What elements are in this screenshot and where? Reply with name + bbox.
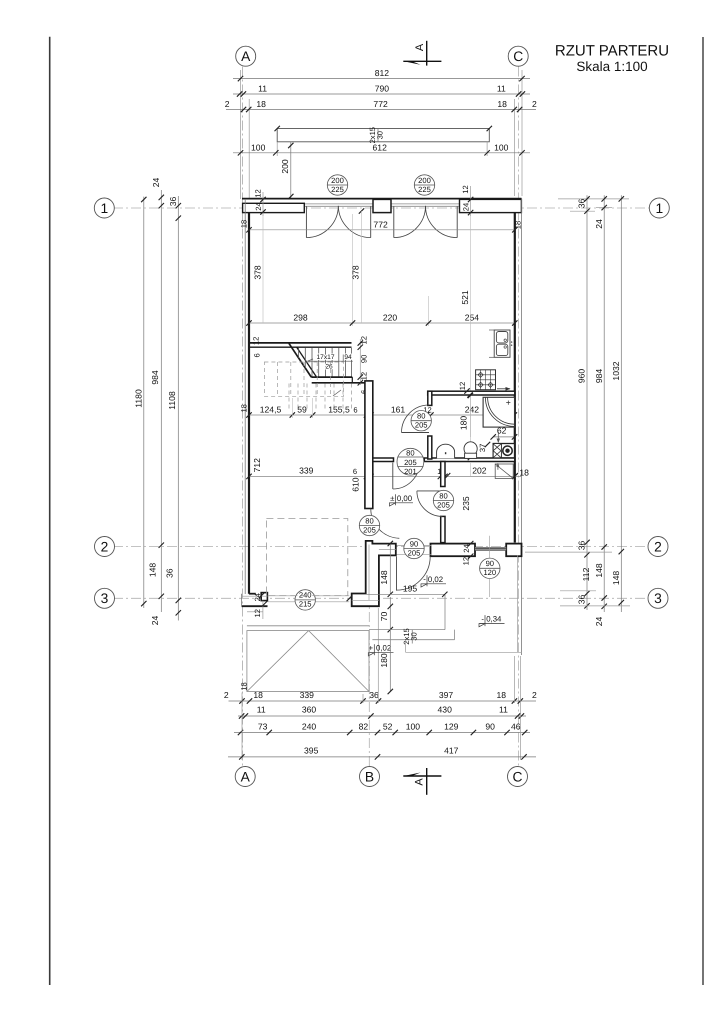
svg-text:12: 12: [253, 189, 262, 197]
thin line 12 offset: [247, 611, 263, 613]
svg-text:24: 24: [462, 203, 471, 211]
extension line left inner 249: [248, 99, 250, 199]
kitchen sink unit: [489, 330, 512, 357]
svg-text:430: 430: [438, 705, 453, 715]
svg-text:90: 90: [486, 559, 494, 568]
label 24 on bedroom pier: [462, 541, 473, 559]
bedroom door 80/205 arc + leaf: [417, 491, 443, 517]
door 201 swing arc: [393, 463, 420, 489]
svg-text:30: 30: [376, 131, 385, 139]
svg-text:24: 24: [594, 219, 604, 229]
svg-text:0,02: 0,02: [428, 575, 443, 584]
svg-text:195: 195: [403, 584, 418, 594]
canopy hip ridge left diagonal: [247, 631, 309, 692]
grid line 1 (horizontal dashed): [113, 207, 650, 209]
door 201 leaf (80/205/201): [392, 463, 394, 489]
svg-text:1: 1: [100, 201, 108, 216]
section mark top: arrow line: [403, 41, 441, 66]
dim row 11 790 11: [233, 84, 530, 97]
canopy top line: [247, 625, 369, 627]
svg-text:215: 215: [299, 600, 312, 609]
svg-text:12: 12: [360, 336, 369, 344]
terrace lines right of steps: [406, 555, 522, 652]
grid bubble 2 right: [648, 537, 668, 557]
stair risers: [299, 348, 352, 377]
bathroom west wall upper segment: [428, 391, 432, 405]
glazing line upper across top wall: [243, 203, 522, 205]
right ext line y207.6: [596, 207, 612, 209]
svg-text:610: 610: [350, 477, 360, 492]
svg-text:148: 148: [148, 563, 158, 578]
hall horizontal wall right segment: [424, 458, 515, 462]
svg-text:1108: 1108: [167, 391, 177, 410]
svg-text:12: 12: [253, 609, 262, 617]
ticks 12 on kitchen wall: [458, 382, 473, 398]
svg-text:36: 36: [165, 568, 175, 578]
level mark -0,02 bedroom: [421, 575, 446, 588]
svg-text:1032: 1032: [611, 361, 621, 380]
canopy hip ridge right diagonal: [309, 631, 369, 692]
terrace door 1 left leaf: [306, 206, 338, 238]
vertical dim 378 left: [252, 216, 263, 323]
svg-text:±: ±: [390, 494, 395, 503]
svg-text:A: A: [414, 43, 426, 51]
svg-text:36: 36: [577, 541, 587, 551]
svg-text:26: 26: [325, 364, 333, 371]
svg-text:80: 80: [406, 448, 414, 457]
toilet: [464, 442, 477, 459]
svg-text:2: 2: [101, 539, 109, 554]
grid bubble 3 right: [648, 588, 668, 608]
svg-text:0,34: 0,34: [486, 615, 502, 624]
svg-text:960: 960: [577, 369, 587, 384]
hall west door 80/205 arc: [371, 509, 400, 539]
hall horizontal wall y458.6-462.6 left segment: [373, 458, 394, 462]
top-middle wall pier: [373, 199, 391, 212]
stair dashed projection rectangle: [264, 362, 343, 396]
bathroom door leaf: [402, 432, 430, 434]
dim 298 220 254 line: [246, 313, 517, 326]
svg-text:298: 298: [293, 313, 308, 323]
svg-text:80: 80: [439, 491, 447, 500]
svg-text:0,00: 0,00: [397, 494, 413, 503]
svg-text:397: 397: [439, 690, 454, 700]
extension line 612 left: [276, 142, 278, 156]
bottom extension verticals: [242, 608, 521, 760]
left chain 1180: [134, 197, 147, 608]
svg-text:17x17: 17x17: [317, 354, 335, 361]
svg-text:11: 11: [257, 705, 266, 715]
svg-text:18: 18: [519, 468, 529, 478]
svg-text:11: 11: [258, 84, 267, 94]
extension line at C outer: [521, 70, 523, 196]
svg-text:12: 12: [252, 337, 261, 345]
level mark ±0,00: [389, 494, 413, 506]
grid line 2 (horizontal dashed): [113, 546, 650, 548]
svg-text:62: 62: [497, 426, 507, 436]
terrace door 240/215 sill lines: [268, 596, 350, 602]
svg-text:220: 220: [383, 313, 398, 323]
bottom chain row2: 11 360 430 11: [238, 705, 526, 719]
svg-text:100: 100: [251, 142, 266, 152]
svg-text:148: 148: [611, 571, 621, 586]
bottom chain row1: 2 18 339 36 397 18 2: [224, 690, 537, 704]
svg-text:812: 812: [375, 68, 390, 78]
svg-text:148: 148: [594, 563, 604, 578]
svg-text:12: 12: [458, 382, 467, 390]
svg-text:12: 12: [461, 557, 470, 565]
svg-text:984: 984: [594, 369, 604, 384]
grid line 3 (horizontal dashed): [113, 597, 650, 599]
bottom chain row3: 73 240 82 52 100 129 90 46: [234, 721, 530, 735]
door label circle 200/225 left: [327, 175, 347, 195]
vertical dim 200 (lintel to wall, left door): [280, 142, 293, 199]
svg-text:6: 6: [353, 467, 357, 476]
svg-text:80: 80: [417, 412, 425, 421]
stair dashed inner verticals below: [289, 384, 352, 411]
svg-text:772: 772: [373, 99, 388, 109]
svg-text:202: 202: [472, 466, 487, 476]
svg-text:378: 378: [350, 265, 360, 280]
svg-text:B: B: [365, 769, 374, 784]
svg-text:155,5: 155,5: [328, 404, 350, 414]
bottom chain row4: 395 417: [228, 745, 536, 759]
bathroom washbasin: [437, 444, 455, 458]
svg-text:80: 80: [365, 516, 373, 525]
svg-text:148: 148: [379, 570, 389, 585]
stair top wall outer line: [249, 342, 352, 344]
door label circle 80/205 bedroom: [433, 490, 453, 510]
svg-text:59: 59: [297, 404, 307, 414]
svg-text:1180: 1180: [134, 389, 144, 408]
small dim 12/24 ticks at right pier: [461, 185, 473, 216]
svg-text:360: 360: [302, 705, 317, 715]
label 2x15/30 rotated on lintel: [368, 127, 385, 143]
dim row 2 18 772 18 2: [225, 99, 537, 112]
svg-text:18: 18: [497, 690, 507, 700]
svg-text:201: 201: [404, 467, 417, 476]
arrow symbol right of stove: [497, 387, 511, 391]
svg-text:205: 205: [437, 500, 450, 509]
grid bubble 2 left: [95, 537, 115, 557]
svg-text:90: 90: [485, 721, 495, 731]
svg-text:1: 1: [655, 201, 663, 216]
svg-text:C: C: [513, 49, 523, 64]
grid bubble 1 left: [94, 198, 114, 218]
extension line 612 right: [486, 142, 488, 156]
svg-text:11: 11: [497, 84, 506, 94]
svg-text:339: 339: [299, 466, 314, 476]
svg-text:984: 984: [150, 370, 160, 385]
svg-text:112: 112: [581, 567, 591, 581]
top-right wall pier: [460, 199, 522, 212]
door label circle 240/215: [295, 590, 315, 610]
label 235 bedroom height: [461, 463, 471, 511]
svg-text:205: 205: [408, 548, 421, 557]
svg-text:36: 36: [577, 199, 587, 209]
section mark bottom: arrow line: [403, 768, 441, 795]
ticks at corner: [259, 593, 352, 607]
svg-text:225: 225: [331, 185, 344, 194]
door label circle 80/205 bathroom: [411, 411, 431, 431]
grid bubble 3 left: [95, 588, 115, 608]
svg-text:24: 24: [151, 178, 161, 188]
dim 148 entrance: [379, 541, 393, 597]
extension line x352.5: [352, 214, 354, 326]
svg-text:12: 12: [360, 372, 369, 380]
door jamb block 240/215 left: [261, 593, 267, 601]
entrance steps: [369, 595, 455, 640]
door label circle 80/205 hall west: [359, 515, 379, 535]
top wall outer edge: [242, 198, 522, 200]
sill thin line left: [242, 595, 268, 597]
terrace door 2 left leaf: [394, 206, 426, 238]
washing machine: [493, 444, 514, 458]
svg-text:90: 90: [410, 539, 418, 548]
bathroom west wall lower segment: [428, 436, 432, 459]
dim row 100 612 100: [233, 142, 530, 155]
grid bubble B bottom: [360, 767, 380, 787]
small dim 12/24 ticks at left pier: [253, 189, 265, 216]
svg-text:2: 2: [225, 99, 230, 109]
svg-text:46: 46: [511, 721, 521, 731]
left chain 36/1108/36: [165, 196, 182, 621]
level mark -0,02 entrance: [368, 643, 394, 656]
svg-text:2: 2: [224, 690, 229, 700]
grid bubble 1 right: [649, 198, 669, 218]
door label circle 80/205/201: [397, 448, 424, 476]
svg-text:18: 18: [497, 99, 507, 109]
dim 180: [379, 630, 393, 695]
svg-text:3: 3: [101, 591, 109, 606]
right chain 36/960/36/112/36: [577, 195, 592, 610]
kitchen stove: [476, 370, 496, 390]
svg-text:205: 205: [363, 525, 376, 534]
svg-text:180: 180: [379, 653, 389, 668]
svg-text:200: 200: [418, 176, 431, 185]
svg-text:120: 120: [483, 568, 496, 577]
left wall inner face: [248, 213, 250, 594]
window 90/120 glazing: [475, 547, 506, 550]
entrance door threshold lines: [396, 545, 431, 554]
bedroom top wall line (shared, already drawn) vent shaft: [495, 463, 513, 479]
stair top wall inner line: [249, 346, 352, 348]
svg-text:612: 612: [373, 142, 388, 152]
label 180 bathroom: [458, 393, 473, 460]
bedroom south wall left pier: [431, 544, 476, 557]
svg-text:RZUT PARTERU: RZUT PARTERU: [555, 43, 669, 60]
svg-text:235: 235: [461, 496, 471, 511]
svg-text:18: 18: [513, 221, 522, 229]
right ext line y211.2: [570, 210, 595, 212]
svg-text:24: 24: [594, 617, 604, 627]
svg-text:129: 129: [444, 721, 459, 731]
terrace door 2 right leaf: [426, 206, 458, 238]
dim 62 washer nook: [491, 426, 518, 443]
sheet fold line right: [702, 37, 704, 985]
svg-text:712: 712: [252, 458, 262, 473]
zigzag inner thin lines: [352, 545, 396, 601]
svg-text:24: 24: [462, 544, 471, 552]
dim 202/18 line y=475.7 ticks: [445, 473, 518, 478]
svg-text:94: 94: [344, 354, 352, 361]
left wall bottom corner outline: [242, 594, 268, 607]
svg-text:24: 24: [253, 593, 262, 601]
grid line B (vertical dashed, lower part): [368, 540, 370, 766]
svg-text:2: 2: [532, 690, 537, 700]
svg-text:417: 417: [444, 745, 459, 755]
svg-text:Skala 1:100: Skala 1:100: [576, 59, 647, 74]
svg-text:395: 395: [304, 745, 319, 755]
svg-text:790: 790: [375, 84, 390, 94]
top-left wall pier: [243, 203, 305, 212]
canopy rectangle: [247, 631, 369, 692]
grid bubble A bottom: [235, 767, 255, 787]
stair lower wall upper line: [311, 377, 352, 383]
stair width dim line 12/90/12: [358, 339, 363, 385]
svg-text:73: 73: [258, 721, 268, 731]
left wall outer face thin line: [244, 199, 246, 594]
svg-text:0,02: 0,02: [376, 644, 391, 653]
extension line at A outer: [240, 70, 242, 199]
svg-text:772: 772: [373, 219, 388, 229]
svg-text:6: 6: [253, 353, 262, 357]
svg-text:161: 161: [391, 404, 406, 414]
kitchen/bath wall y391-395: [428, 391, 515, 395]
svg-text:24: 24: [150, 616, 160, 626]
svg-text:205: 205: [415, 421, 428, 430]
lintel rectangle 612 above doors: [275, 126, 492, 142]
dim 70: [379, 597, 393, 632]
svg-text:A: A: [241, 49, 251, 64]
right ext lines bottom: [525, 551, 612, 553]
svg-text:30: 30: [409, 632, 418, 640]
svg-text:C: C: [513, 769, 523, 784]
stair walk arrow: [333, 390, 341, 396]
left chain 24/984/148: [148, 178, 165, 626]
dim 195 line: [366, 584, 447, 597]
svg-text:2: 2: [532, 99, 537, 109]
svg-text:18: 18: [240, 404, 249, 412]
svg-text:70: 70: [379, 612, 389, 622]
bathroom door arc: [402, 405, 430, 433]
bedroom west wall upper segment: [441, 462, 445, 487]
svg-text:2: 2: [654, 539, 662, 554]
grid line C (vertical dashed): [518, 67, 520, 767]
door label circle 90/205 entrance: [404, 538, 424, 558]
svg-text:200: 200: [331, 176, 344, 185]
svg-text:36: 36: [369, 690, 379, 700]
svg-text:18: 18: [240, 220, 249, 228]
svg-text:254: 254: [465, 313, 480, 323]
dim row 812: [233, 68, 530, 81]
bedroom south wall right corner block: [506, 544, 521, 557]
grid bubble C bottom: [508, 767, 528, 787]
terrace door 1 right leaf: [338, 206, 370, 238]
svg-text:18: 18: [256, 99, 266, 109]
entrance door arc: [397, 556, 431, 590]
ext lines for stair dims: [291, 398, 293, 418]
svg-text:225: 225: [418, 185, 431, 194]
right chain 24/984/148/24: [594, 195, 607, 626]
right wall outer face thin line: [520, 199, 522, 655]
svg-text:200: 200: [280, 159, 290, 174]
svg-text:52: 52: [383, 721, 393, 731]
vertical dim 521 kitchen: [460, 216, 471, 437]
bedroom west wall stub: [441, 516, 445, 542]
sheet fold line left: [49, 37, 51, 985]
dashed carport rectangle: [266, 519, 347, 596]
svg-text:A: A: [413, 778, 425, 786]
svg-text:100: 100: [494, 142, 509, 152]
stair stringer diagonal wall: [289, 343, 317, 377]
svg-text:378: 378: [252, 265, 262, 280]
entrance door leaf: [396, 556, 398, 590]
svg-text:36: 36: [577, 595, 587, 605]
svg-text:124,5: 124,5: [260, 404, 282, 414]
svg-text:82: 82: [359, 721, 369, 731]
dim 772 line: [246, 208, 517, 232]
svg-text:3: 3: [654, 591, 662, 606]
svg-text:242: 242: [465, 404, 480, 414]
extension line right inner 514.6: [514, 99, 516, 196]
svg-text:36: 36: [168, 197, 178, 207]
svg-text:-: -: [481, 614, 484, 623]
svg-text:240: 240: [302, 721, 317, 731]
svg-text:100: 100: [406, 721, 421, 731]
svg-text:A: A: [241, 769, 251, 784]
right ext line y198.9: [558, 198, 629, 200]
shower tray: [483, 397, 514, 427]
grid bubble C top: [508, 46, 528, 66]
svg-text:11: 11: [499, 705, 508, 715]
grid bubble A top: [236, 46, 256, 66]
right wall inner face: [514, 213, 516, 543]
svg-text:6: 6: [353, 406, 357, 415]
svg-text:12: 12: [461, 185, 470, 193]
svg-text:37: 37: [478, 444, 487, 452]
ext vertical for 12: [262, 601, 264, 619]
svg-text:90: 90: [360, 355, 369, 363]
level mark -0,34 terrace: [479, 614, 505, 627]
label 2x15/30 steps: [402, 628, 419, 644]
right chain 1032/148: [611, 195, 624, 612]
svg-text:521: 521: [460, 290, 470, 305]
hall west wall (stairs side): [365, 381, 373, 509]
window axis ext line: [489, 536, 491, 558]
vertical dim 378 mid: [350, 211, 361, 323]
extension line x428.5: [428, 296, 430, 326]
stair label 17x17/94 26: [308, 354, 353, 370]
stair lower wall lower line: [312, 382, 365, 384]
svg-text:180: 180: [458, 416, 468, 431]
grid line A (vertical dashed): [242, 67, 244, 767]
door label circle 200/225 right: [414, 175, 434, 195]
svg-text:205: 205: [404, 458, 417, 467]
glazing line lower across top wall: [243, 205, 522, 207]
svg-text:24: 24: [254, 202, 263, 210]
window label circle 90/120: [480, 558, 500, 578]
